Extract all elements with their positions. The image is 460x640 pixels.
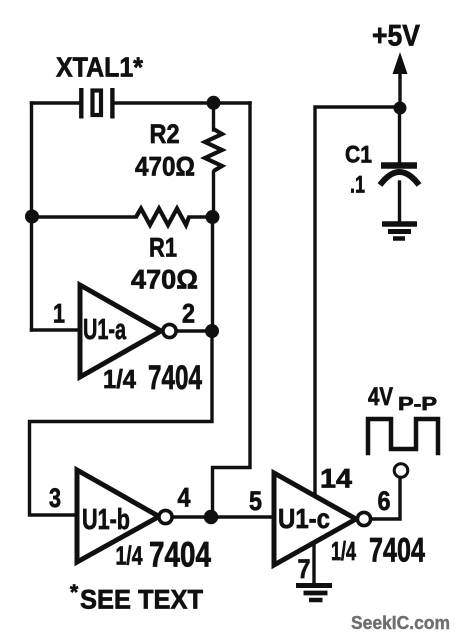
- wire R1R2 column to U1-a output: [211, 217, 214, 331]
- svg-text:SeekIC.com: SeekIC.com: [351, 613, 450, 633]
- wire +5V arrow shaft: [398, 70, 401, 108]
- svg-text:C1: C1: [345, 142, 372, 169]
- wire left bus vertical: [30, 103, 33, 330]
- svg-text:1/4: 1/4: [116, 541, 143, 571]
- node dot +5V rail junction: [394, 102, 407, 115]
- svg-text:1/4: 1/4: [103, 364, 136, 394]
- svg-text:XTAL1*: XTAL1*: [56, 52, 143, 83]
- wire pin 1 input: [32, 328, 81, 331]
- node dot U1-a output junction: [205, 324, 219, 338]
- inverter U1-c bubble: [357, 512, 370, 525]
- wire U1-c output: [370, 478, 400, 519]
- wire U1-a output to node: [176, 329, 213, 332]
- svg-text:7: 7: [298, 554, 311, 584]
- svg-text:470Ω: 470Ω: [135, 152, 195, 182]
- node dot R1/R2 junction: [206, 210, 220, 224]
- node dot crystal/R2 junction: [207, 96, 221, 110]
- crystal XTAL1 right plate: [110, 88, 114, 119]
- svg-text:+5V: +5V: [372, 20, 420, 53]
- wire R1 right lead: [189, 215, 213, 218]
- wire R2 bottom lead: [212, 172, 215, 217]
- waveform square wave 4V p-p: [368, 419, 438, 453]
- svg-text:14: 14: [320, 464, 352, 494]
- svg-text:1/4: 1/4: [331, 536, 356, 566]
- resistor R2 zigzag: [205, 129, 222, 171]
- +5V arrow head: [393, 52, 408, 74]
- svg-text:4V: 4V: [368, 383, 393, 411]
- svg-text:7404: 7404: [369, 532, 425, 570]
- wire R2 top lead: [212, 103, 215, 130]
- svg-text:5: 5: [249, 486, 262, 516]
- svg-text:.1: .1: [350, 172, 365, 199]
- svg-text:R2: R2: [150, 119, 180, 149]
- wire pin 7 to ground: [312, 541, 315, 583]
- svg-text:7404: 7404: [148, 359, 202, 397]
- wire crystal left lead: [32, 101, 80, 104]
- wire +5V rail to pin 14: [315, 107, 400, 499]
- svg-text:R1: R1: [149, 233, 177, 263]
- output terminal circle: [394, 464, 408, 478]
- svg-text:U1-a: U1-a: [83, 314, 127, 346]
- ground below C1: [382, 224, 417, 239]
- inverter U1-b bubble: [159, 510, 172, 523]
- wire crystal net down to U1-b output node: [213, 103, 251, 517]
- wire crystal right lead: [114, 101, 250, 104]
- svg-text:470Ω: 470Ω: [131, 265, 198, 295]
- inverter U1-a bubble: [163, 324, 176, 337]
- inverter U1-a triangle: [80, 285, 161, 377]
- crystal XTAL1 left plate: [79, 88, 83, 119]
- capacitor C1 bottom curved plate: [380, 172, 419, 185]
- svg-text:7404: 7404: [149, 536, 211, 575]
- svg-text:1: 1: [53, 299, 65, 329]
- node dot U1-b output junction: [204, 510, 218, 524]
- svg-text:P-P: P-P: [398, 394, 437, 414]
- capacitor C1 top plate: [381, 162, 417, 169]
- wire C1 bottom lead: [398, 182, 401, 221]
- svg-text:U1-c: U1-c: [278, 503, 330, 534]
- svg-text:6: 6: [378, 486, 391, 516]
- svg-text:4: 4: [178, 483, 191, 513]
- wire feedback U1-a out down-left to U1-b in: [30, 331, 213, 515]
- inverter U1-c triangle: [274, 473, 356, 565]
- ground below U1-c pin 7: [296, 586, 332, 601]
- crystal XTAL1 body: [93, 91, 102, 116]
- svg-text:2: 2: [182, 299, 195, 329]
- svg-text:U1-b: U1-b: [82, 504, 130, 536]
- wire C1 top lead: [398, 108, 401, 162]
- node dot R1 left junction: [25, 210, 39, 224]
- resistor R1 zigzag: [136, 209, 189, 226]
- wire R1 left lead: [32, 215, 137, 218]
- svg-text:3: 3: [49, 483, 61, 513]
- svg-text:*: *: [70, 581, 79, 604]
- inverter U1-b triangle: [77, 470, 159, 562]
- wire U1-b output to U1-c pin 5: [172, 515, 274, 518]
- svg-text:SEE TEXT: SEE TEXT: [80, 585, 203, 615]
